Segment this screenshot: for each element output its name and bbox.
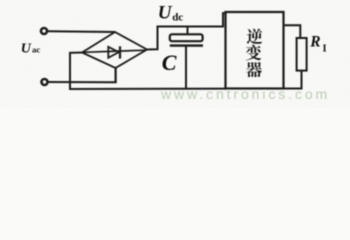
capacitor C bottom plate: [170, 44, 203, 46]
inverter char bian (变): [246, 45, 262, 61]
wire bridge bottom vertex down to rail: [114, 68, 116, 83]
wire top terminal to bridge top vertex: [48, 30, 116, 33]
wire junction up to bridge left vertex: [70, 53, 83, 90]
diode D cathode bar: [119, 46, 121, 58]
svg-text:I: I: [323, 43, 327, 54]
terminal top (AC input +): [41, 28, 47, 34]
inverter char ni (逆): [247, 29, 263, 44]
capacitor C top plate (hollow): [170, 34, 203, 41]
svg-text:U: U: [158, 3, 173, 24]
svg-text:C: C: [162, 50, 177, 75]
wire inverter to load resistor top: [284, 25, 301, 38]
bridge middle line: [83, 50, 146, 52]
terminal bottom (AC input -): [42, 79, 48, 85]
wire rail inverter to resistor bottom: [284, 88, 303, 90]
wire capacitor top lead: [187, 28, 189, 35]
wire bottom terminal to junction: [48, 81, 117, 83]
wire bottom rail: [69, 88, 226, 90]
inverter char qi (器): [246, 62, 262, 77]
svg-text:R: R: [309, 33, 320, 50]
bridge rectifier diamond: [82, 32, 147, 68]
svg-text:dc: dc: [172, 12, 183, 24]
wire resistor bottom lead: [301, 71, 303, 89]
resistor RI body: [297, 38, 307, 71]
inverter box: [226, 12, 284, 89]
diode D triangle: [108, 47, 119, 58]
wire capacitor bottom lead down to rail: [185, 46, 187, 89]
svg-text:ac: ac: [32, 44, 40, 54]
wire bridge right vertex up to Udc node: [147, 13, 227, 49]
svg-text:U: U: [21, 41, 32, 56]
